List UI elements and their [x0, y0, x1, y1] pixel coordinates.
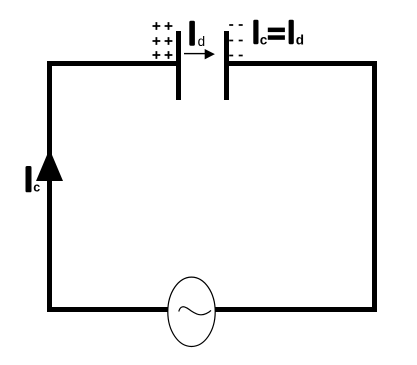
wire right side	[372, 61, 377, 312]
wire top-left segment	[47, 61, 176, 66]
svg-text:d: d	[198, 34, 206, 49]
capacitor C left plate	[176, 31, 181, 100]
displacement current arrow	[184, 49, 215, 59]
label Ic (conduction current)	[26, 166, 41, 195]
plus charges on left plate	[153, 22, 173, 59]
minus charges on right plate	[229, 24, 243, 56]
AC source	[168, 277, 215, 346]
svg-text:c: c	[33, 181, 40, 195]
wire top-right segment	[229, 61, 377, 66]
conduction current arrow (up)	[36, 149, 63, 181]
wire left side	[47, 61, 52, 312]
wire bottom	[47, 307, 377, 312]
label Id (displacement current)	[189, 21, 205, 49]
svg-text:d: d	[296, 33, 304, 48]
label Ic=Id	[253, 20, 304, 48]
svg-text:c: c	[260, 33, 268, 48]
capacitor C right plate	[224, 31, 229, 100]
